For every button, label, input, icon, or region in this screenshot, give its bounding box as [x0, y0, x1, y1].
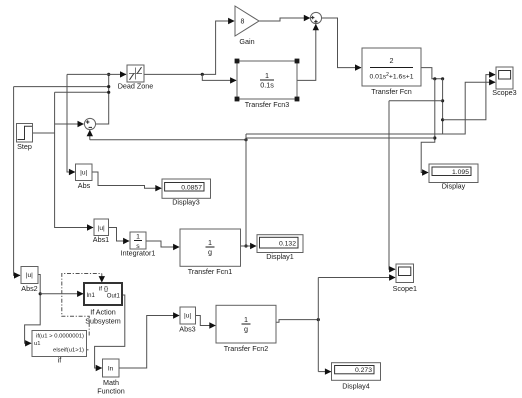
svg-text:|u|: |u| — [98, 225, 105, 232]
svg-text:if: if — [58, 355, 62, 364]
svg-text:Display4: Display4 — [342, 382, 370, 391]
svg-text:Scope1: Scope1 — [393, 284, 417, 293]
svg-text:Integrator1: Integrator1 — [121, 249, 156, 258]
svg-text:Display: Display — [442, 182, 466, 191]
svg-text:Display3: Display3 — [172, 198, 200, 207]
svg-text:Subsystem: Subsystem — [85, 317, 121, 326]
svg-text:0.01s2+1.6s+1: 0.01s2+1.6s+1 — [370, 72, 414, 81]
svg-text:Out1: Out1 — [107, 293, 121, 299]
svg-text:Transfer Fcn3: Transfer Fcn3 — [245, 100, 289, 109]
svg-text:1: 1 — [208, 238, 212, 247]
svg-text:0.0857: 0.0857 — [181, 184, 202, 191]
svg-text:1: 1 — [136, 233, 140, 240]
svg-text:u1: u1 — [34, 341, 40, 347]
svg-text:Gain: Gain — [239, 37, 254, 46]
svg-text:if {}: if {} — [99, 286, 109, 293]
svg-text:Dead Zone: Dead Zone — [118, 82, 154, 91]
svg-text:1: 1 — [244, 315, 248, 324]
svg-text:Step: Step — [17, 142, 32, 151]
svg-text:g: g — [208, 247, 212, 256]
svg-text:Abs1: Abs1 — [93, 235, 109, 244]
svg-text:8: 8 — [241, 19, 245, 26]
svg-text:1: 1 — [265, 71, 269, 80]
svg-text:Scope3: Scope3 — [492, 88, 516, 97]
svg-text:In1: In1 — [87, 293, 96, 299]
svg-text:0.1s: 0.1s — [260, 80, 274, 89]
svg-text:2: 2 — [390, 56, 394, 65]
svg-text:ln: ln — [108, 366, 114, 373]
svg-text:g: g — [244, 324, 248, 333]
svg-text:0.273: 0.273 — [355, 367, 372, 374]
svg-text:Function: Function — [97, 387, 125, 396]
svg-text:Transfer Fcn: Transfer Fcn — [371, 87, 411, 96]
svg-text:Abs3: Abs3 — [179, 325, 195, 334]
svg-text:|u|: |u| — [80, 170, 87, 177]
svg-text:|u|: |u| — [184, 313, 191, 320]
svg-text:Transfer Fcn1: Transfer Fcn1 — [188, 267, 232, 276]
svg-text:0.132: 0.132 — [279, 240, 296, 247]
svg-text:Display1: Display1 — [266, 252, 294, 261]
svg-text:Abs2: Abs2 — [21, 284, 37, 293]
svg-text:1.095: 1.095 — [452, 169, 469, 176]
svg-text:Transfer Fcn2: Transfer Fcn2 — [224, 344, 268, 353]
svg-text:Abs: Abs — [78, 181, 91, 190]
svg-text:If Action: If Action — [90, 308, 116, 317]
svg-text:elseif(u1>1): elseif(u1>1) — [53, 348, 84, 354]
svg-text:if(u1 > 0.0000001): if(u1 > 0.0000001) — [36, 334, 84, 340]
svg-text:|u|: |u| — [26, 272, 33, 279]
